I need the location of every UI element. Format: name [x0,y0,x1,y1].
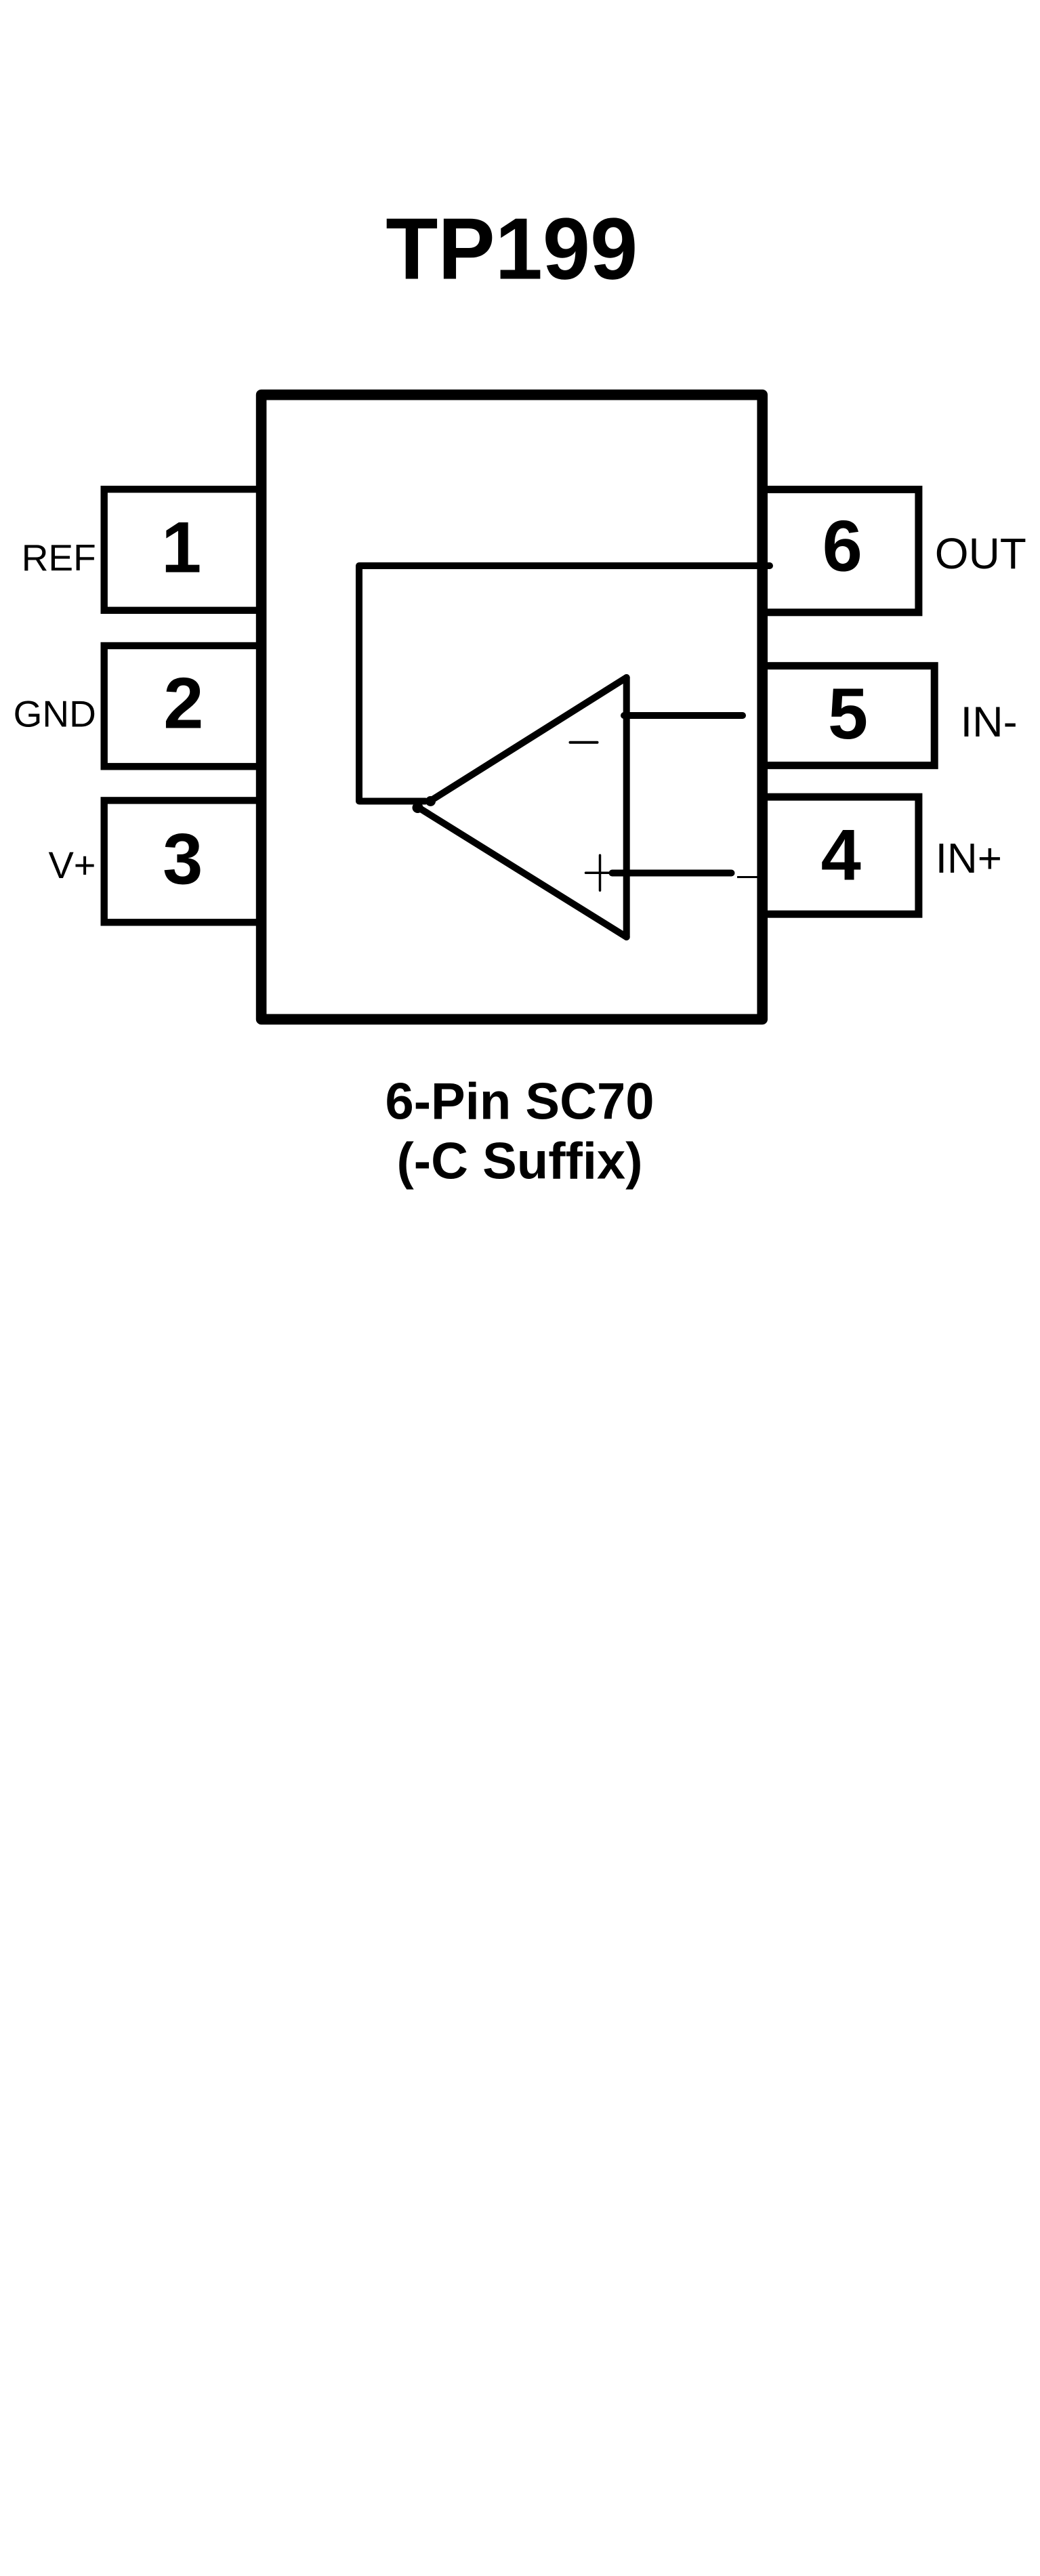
svg-text:6: 6 [823,505,862,586]
pin 5 box [762,666,934,766]
pin 3 box [104,800,262,922]
svg-text:IN-: IN- [961,699,1018,746]
svg-text:6-Pin SC70: 6-Pin SC70 [385,1073,654,1131]
svg-text:4: 4 [821,814,861,895]
svg-text:2: 2 [163,663,203,744]
svg-text:OUT: OUT [935,529,1026,578]
wire feedback loop (output to op-amp apex) [359,566,770,802]
svg-text:REF: REF [22,537,96,579]
pin 1 box [104,489,262,610]
pin 4 box [762,797,919,914]
IC body U1 [262,395,763,1020]
svg-text:V+: V+ [48,844,96,886]
pin 2 box [104,646,262,766]
pin 6 box [762,489,919,612]
svg-text:GND: GND [14,692,96,734]
svg-text:3: 3 [163,819,203,900]
svg-text:IN+: IN+ [936,835,1002,882]
op-amp non-inverting input marker (+) horizontal [586,872,611,875]
junction blob at apex lower [413,802,423,813]
wire IN+ (pin 4 to non-inverting input) [612,870,732,877]
op-amp U1 triangle right edge [623,678,630,937]
wire IN- (pin 5 to inverting input) [624,712,743,719]
svg-text:TP199: TP199 [386,201,638,298]
op-amp inverting input marker (-) [570,741,598,744]
svg-text:1: 1 [161,507,201,588]
svg-text:5: 5 [828,673,868,754]
op-amp non-inverting input marker (+) vertical [599,855,602,890]
op-amp U1 triangle upper hypotenuse [430,678,627,802]
wire IN+ thin segment at IC border [737,876,759,878]
svg-text:(-C Suffix): (-C Suffix) [396,1133,642,1190]
op-amp U1 triangle lower hypotenuse [418,808,627,938]
junction blob at apex upper [425,796,436,806]
